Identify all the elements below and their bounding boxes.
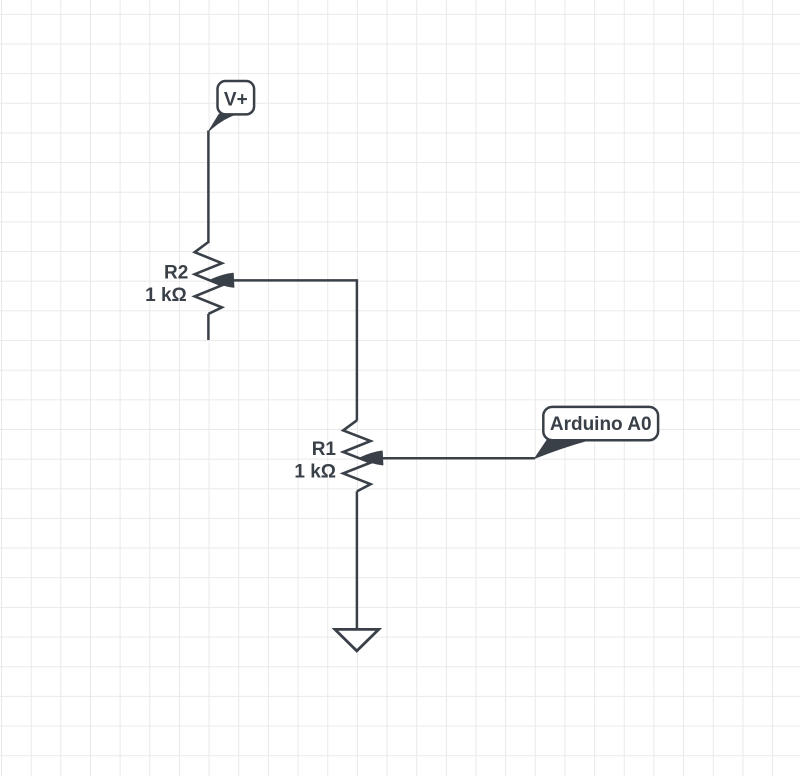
svg-text:V+: V+	[224, 90, 248, 111]
wire V+ to R2 top	[207, 131, 210, 244]
net flag Arduino A0	[535, 407, 658, 458]
svg-text:R1: R1	[312, 439, 337, 460]
svg-text:R2: R2	[164, 263, 188, 284]
svg-text:Arduino A0: Arduino A0	[550, 414, 652, 435]
wire R1 wiper to Arduino A0 flag	[382, 457, 535, 460]
potentiometer R1 body	[343, 420, 370, 491]
potentiometer R2 body	[195, 242, 222, 314]
wire R2 wiper to R1 top (L-shape)	[231, 280, 357, 420]
wiper arrow R2	[210, 273, 234, 287]
wire R1 bottom to ground	[356, 491, 359, 629]
net flag V+	[209, 81, 254, 131]
wire R2 bottom dangling end	[207, 314, 210, 340]
svg-text:1 kΩ: 1 kΩ	[145, 285, 187, 306]
svg-text:1 kΩ: 1 kΩ	[294, 461, 336, 482]
ground	[335, 629, 379, 651]
wiper arrow R1	[360, 451, 383, 465]
